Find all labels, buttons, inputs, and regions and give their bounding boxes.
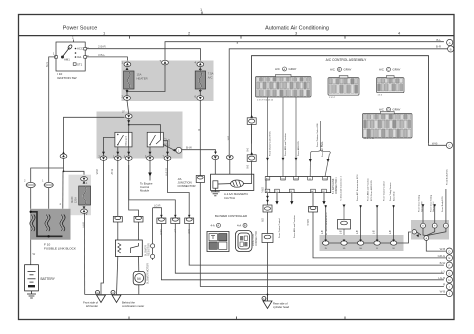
junction bus terminal 1H <box>357 241 363 245</box>
fusible link element x=61.2 <box>60 215 63 232</box>
svg-text:C: C <box>387 68 389 72</box>
distribution wires to junction boxes <box>129 160 190 218</box>
battery <box>25 265 39 291</box>
blower resistor box <box>115 240 142 256</box>
wire from left branch to relay terminal <box>64 117 125 153</box>
svg-text:1 3 5 7: 1 3 5 7 <box>329 97 336 99</box>
main fuse column (light gray) <box>69 175 92 216</box>
svg-text:From Cruise Control: From Cruise Control <box>278 218 281 238</box>
svg-text:W-B: W-B <box>432 141 438 145</box>
wire ignition IG1 to left fuse <box>87 57 128 63</box>
svg-text:L-B: L-B <box>390 230 392 234</box>
svg-text:4-A: 4-A <box>211 224 215 228</box>
svg-text:GRAY: GRAY <box>393 108 401 112</box>
off-page connector H wire LG-R <box>446 277 452 283</box>
svg-text:B-R: B-R <box>436 45 442 49</box>
off-page connector D wire W-B <box>446 248 452 254</box>
svg-text:From Pattern Select SW: From Pattern Select SW <box>316 122 319 147</box>
terminal A-2 clutch connector pin 3 <box>226 155 233 159</box>
terminal fusible link MAIN bottom <box>81 209 88 213</box>
svg-text:W-B: W-B <box>440 247 446 251</box>
svg-text:IG1: IG1 <box>77 55 82 59</box>
switch contacts <box>75 48 77 66</box>
wire ignition ACC to right fuse <box>49 49 201 182</box>
svg-text:D: D <box>387 108 389 112</box>
wire AM1 down from ignition <box>49 57 56 182</box>
svg-text:W-B: W-B <box>440 290 446 294</box>
svg-text:Power Source: Power Source <box>63 26 98 32</box>
svg-text:L-Y: L-Y <box>441 269 446 273</box>
svg-text:GRAY: GRAY <box>344 68 352 72</box>
fusible link element x=46.2 <box>45 215 48 232</box>
svg-text:From ABS ECU: From ABS ECU <box>297 140 300 156</box>
junction bus terminal 1J <box>374 241 380 245</box>
svg-text:ECU From 4WD ECU: ECU From 4WD ECU <box>370 180 373 201</box>
svg-text:GR: GR <box>261 218 264 222</box>
HTR relay <box>115 132 132 147</box>
pin stubs on ignition box <box>55 48 87 66</box>
terminal relay block bottom pin 4 <box>147 156 154 160</box>
svg-text:Front Choke Control ECU: Front Choke Control ECU <box>268 131 271 156</box>
svg-text:R: R <box>443 283 445 287</box>
svg-text:B: B <box>338 68 340 72</box>
ground wire 1 from relay <box>101 160 104 295</box>
svg-text:B: B <box>450 47 452 51</box>
svg-text:6 W: 6 W <box>45 62 49 67</box>
svg-text:1G: 1G <box>343 248 346 250</box>
svg-text:B: B <box>197 129 201 131</box>
terminal fusible link MAIN top <box>81 177 88 181</box>
right edge circle A <box>447 39 454 52</box>
fuse box internal wires <box>127 65 200 96</box>
svg-text:T4: T4 <box>309 179 311 181</box>
svg-text:B: B <box>244 224 246 228</box>
column ruler ticks <box>129 36 345 39</box>
relay feed junction <box>129 118 161 132</box>
svg-text:HEATER: HEATER <box>137 76 148 80</box>
svg-text:CLUTCH: CLUTCH <box>224 196 235 200</box>
svg-text:HTR RLY: HTR RLY <box>125 136 128 146</box>
svg-text:A/C: A/C <box>330 68 335 72</box>
off-page connector E wire GR-G <box>446 255 452 261</box>
svg-text:To Data Link Connector 1: To Data Link Connector 1 <box>340 176 343 201</box>
long ground bus <box>85 294 447 296</box>
svg-text:L-B: L-B <box>374 230 376 234</box>
svg-text:left fender: left fender <box>86 304 98 308</box>
svg-text:Rear side of: Rear side of <box>273 302 288 306</box>
GR-G wire to right edge <box>313 193 446 258</box>
svg-text:BLOWER MOTOR: BLOWER MOTOR <box>146 263 149 284</box>
svg-text:JUNCTION: JUNCTION <box>253 234 255 246</box>
data link connector 1 <box>266 177 331 193</box>
svg-text:A/C: A/C <box>379 68 384 72</box>
MG CLT relay <box>147 132 163 147</box>
connector box on blower wire <box>113 216 122 222</box>
relay output circle to B-W <box>173 149 176 152</box>
terminal fuse A/C bottom pin 6 <box>197 96 204 101</box>
svg-text:B-W: B-W <box>110 169 114 175</box>
terminal relay block bottom pin 5 <box>164 156 171 160</box>
terminal fuse HEATER top pin 1 <box>124 62 131 67</box>
svg-text:RESISTOR: RESISTOR <box>148 243 151 256</box>
svg-text:9-6: 9-6 <box>245 148 248 152</box>
svg-text:TR1: TR1 <box>281 179 285 181</box>
connector A <box>256 77 312 98</box>
wire left fuse bottom to relay top terminal <box>64 100 129 153</box>
svg-text:CONNECTOR: CONNECTOR <box>256 231 258 246</box>
svg-text:combination meter: combination meter <box>122 304 144 308</box>
junction bus terminal IN <box>323 241 329 245</box>
svg-text:GR-G: GR-G <box>306 219 309 226</box>
svg-text:W: W <box>33 252 36 256</box>
svg-text:L-B: L-B <box>341 230 343 234</box>
svg-text:Behind the: Behind the <box>122 300 135 304</box>
wires from connector A down to data link connector <box>268 97 297 177</box>
svg-text:From Cruise Control: From Cruise Control <box>383 181 386 201</box>
svg-text:1 3 5 7 9 11: 1 3 5 7 9 11 <box>364 138 375 140</box>
svg-text:3 B-L: 3 B-L <box>98 53 106 57</box>
svg-text:LG-R: LG-R <box>154 203 160 207</box>
svg-text:E: E <box>448 256 450 260</box>
svg-text:A: A <box>217 224 219 228</box>
svg-text:1J: 1J <box>376 248 378 250</box>
blower motor <box>133 271 145 284</box>
svg-text:L-B: L-B <box>357 230 359 234</box>
connector D <box>363 114 413 139</box>
terminal A-2 clutch connector pin 1 <box>212 155 219 159</box>
svg-text:CONNECTOR 1: CONNECTOR 1 <box>336 177 338 194</box>
ground: rear side of cylinder head <box>262 297 272 309</box>
svg-text:BATTERY: BATTERY <box>41 277 56 281</box>
junction outputs to right edge <box>161 224 444 280</box>
ground column from data link E1 <box>267 193 269 301</box>
page tick <box>201 12 203 15</box>
svg-text:B-W: B-W <box>186 146 192 150</box>
svg-text:H: H <box>448 278 450 282</box>
bus2 from clutch column to right edge circle B <box>229 49 447 155</box>
svg-text:Assembly: Assembly <box>393 191 396 201</box>
svg-text:16 B-R: 16 B-R <box>164 168 168 176</box>
W-B wire from A/C box right <box>85 143 447 301</box>
svg-text:LG-R: LG-R <box>438 276 445 280</box>
ground 1 triangle <box>96 291 106 303</box>
terminal relay block bottom pin 1 <box>100 156 107 160</box>
junction connector J189 <box>185 218 194 224</box>
bottom ruler ticks <box>129 317 345 320</box>
box edge pin and wire to clutch <box>247 118 256 125</box>
svg-text:From ABS and Traction: From ABS and Traction <box>367 178 370 201</box>
fusible link AM2 <box>26 182 53 187</box>
svg-text:A/C CONTROL ASSEMBLY: A/C CONTROL ASSEMBLY <box>326 58 367 62</box>
svg-text:BLOWER CONTROLLER: BLOWER CONTROLLER <box>215 214 247 218</box>
junction bus terminal 1G <box>341 241 347 245</box>
ground 2 triangle <box>111 291 121 303</box>
off-page connector I wire R <box>446 284 452 290</box>
fuse HEATER <box>124 71 134 89</box>
connector C <box>377 78 405 93</box>
svg-text:From A/C Clock: From A/C Clock <box>321 141 324 157</box>
svg-text:C: C <box>448 144 450 148</box>
A/C magnetic clutch <box>215 160 230 175</box>
svg-text:4-A: 4-A <box>237 224 241 228</box>
relay pin wires to bottom terminals <box>104 137 175 155</box>
svg-text:A: A <box>283 67 285 71</box>
connector B <box>328 78 359 96</box>
svg-text:B-R: B-R <box>227 136 230 141</box>
svg-text:W-B: W-B <box>95 169 99 175</box>
off-page connector J wire W-B <box>446 290 452 296</box>
junction connector J161 <box>157 218 166 224</box>
svg-text:Module: Module <box>140 189 150 193</box>
battery wire <box>30 240 32 265</box>
svg-text:2 B-R: 2 B-R <box>98 45 107 49</box>
bus1 from fuse mid terminal to right edge circle A <box>165 42 448 155</box>
left feed terminal <box>62 151 65 154</box>
svg-text:Sensor RH: Sensor RH <box>420 201 423 212</box>
off-page stubs below data link <box>277 193 324 201</box>
svg-text:FUSIBLE LINK BLOCK: FUSIBLE LINK BLOCK <box>44 247 77 251</box>
svg-text:IH: IH <box>263 297 266 301</box>
blower feed column <box>117 160 118 295</box>
wire arrow x=296 to data link <box>295 158 298 161</box>
junction bus terminal 1K <box>390 241 396 245</box>
svg-text:G: G <box>448 271 450 275</box>
svg-text:IGNITION SW: IGNITION SW <box>57 76 77 80</box>
svg-text:D: D <box>448 249 450 253</box>
svg-text:From Door Swing: From Door Swing <box>418 194 421 212</box>
svg-text:CONNECTOR: CONNECTOR <box>178 184 196 188</box>
svg-text:Front side of: Front side of <box>83 300 98 304</box>
svg-text:GRAY: GRAY <box>289 67 297 71</box>
svg-text:M: M <box>137 276 140 281</box>
terminal fuse HEATER bottom pin 2 <box>124 96 131 101</box>
svg-text:RELAY: RELAY <box>168 138 171 146</box>
svg-text:B-L: B-L <box>436 38 441 42</box>
fuse block (gray) <box>122 61 214 102</box>
svg-text:AM1: AM1 <box>64 58 70 62</box>
joint circles <box>152 208 154 260</box>
svg-text:Sensor LH: Sensor LH <box>432 201 435 212</box>
wire arrow x=267.5 to data link <box>266 158 269 161</box>
svg-text:5-1 DATA LINK: 5-1 DATA LINK <box>332 178 335 194</box>
svg-text:TR4: TR4 <box>323 179 327 181</box>
svg-text:ACC: ACC <box>77 47 83 51</box>
battery ground <box>27 291 36 298</box>
terminal AM2 feed connector <box>60 154 67 158</box>
terminal fuse block pin 7 <box>162 60 169 65</box>
ignition switch I10 box <box>56 40 85 72</box>
svg-text:GR-L: GR-L <box>261 187 264 194</box>
brace split wire to data link T4/TR4 <box>310 121 330 177</box>
wire arrow x=283 to data link <box>282 158 285 161</box>
blower motor feed column <box>129 160 139 294</box>
svg-text:A/C: A/C <box>208 75 213 79</box>
svg-text:From ABS and Traction: From ABS and Traction <box>293 215 296 238</box>
svg-text:A/C: A/C <box>379 108 384 112</box>
svg-text:From A/C Economizer ECU: From A/C Economizer ECU <box>356 174 359 201</box>
relay block (gray) <box>97 112 183 159</box>
svg-text:120A: 120A <box>75 197 78 203</box>
terminal fuse A/C top pin 4 <box>197 62 204 67</box>
svg-text:A-2 A/C MAGNETIC: A-2 A/C MAGNETIC <box>224 192 248 196</box>
svg-text:B-W: B-W <box>440 261 446 265</box>
switch lever <box>61 44 72 58</box>
fuse A/C <box>195 71 205 89</box>
terminal relay block bottom pin 3 <box>125 156 132 160</box>
svg-text:From ABS and Traction: From ABS and Traction <box>284 133 287 156</box>
svg-text:From Body ECU: From Body ECU <box>441 196 444 212</box>
wire to ECM <box>149 160 151 180</box>
bar feeder vertical from H junction <box>343 207 345 240</box>
junction block 2 (gray) <box>411 220 449 240</box>
svg-text:Front Body ECU: Front Body ECU <box>446 169 449 185</box>
off-page connector G wire L-Y <box>446 270 452 276</box>
svg-text:GR-G: GR-G <box>438 254 446 258</box>
svg-text:1 3 5 7 9 11 13 15: 1 3 5 7 9 11 13 15 <box>257 100 274 102</box>
svg-text:4H3: 4H3 <box>294 179 297 181</box>
svg-text:A/C: A/C <box>275 67 280 71</box>
svg-text:A: A <box>449 41 451 45</box>
svg-text:From Door Swing: From Door Swing <box>429 194 432 212</box>
J/A junction connector on B wire <box>200 100 444 286</box>
svg-text:From Telng Sensor: From Telng Sensor <box>389 182 392 201</box>
svg-text:cylinder head: cylinder head <box>273 305 289 309</box>
fusible link block F10 <box>30 209 71 240</box>
junction connector J175 <box>171 218 180 224</box>
off-page connector F wire B-W <box>446 262 452 268</box>
terminal relay block bottom pin 2 <box>114 156 121 160</box>
off-page connector C wire W-B <box>446 142 452 148</box>
fusible link element x=31.2 <box>30 215 33 232</box>
A/C control assembly box (open bottom) <box>252 56 429 144</box>
svg-text:1: 1 <box>72 36 74 40</box>
svg-text:F: F <box>449 263 451 267</box>
svg-text:L-B: L-B <box>322 230 324 234</box>
junction bus (gray bar) <box>320 235 404 251</box>
svg-text:GRAY: GRAY <box>393 68 401 72</box>
svg-text:ST1: ST1 <box>77 63 83 67</box>
svg-text:W-R: W-R <box>82 222 86 228</box>
svg-text:8-6: 8-6 <box>245 165 248 169</box>
